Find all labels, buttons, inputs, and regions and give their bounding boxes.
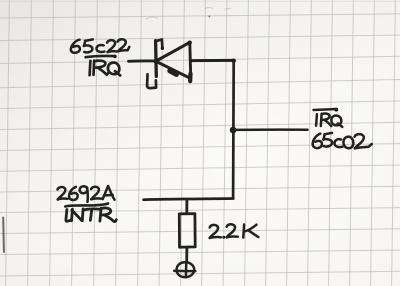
faint pencil smudges (paper artifacts) xyxy=(146,8,231,19)
net label IRQ overline (65c02 side) xyxy=(314,108,339,112)
net label IRQ text (65c22 side) xyxy=(90,61,121,76)
wire vertical bus from Q1 down to INTR net xyxy=(232,61,235,199)
wire INTR net down to resistor R1 xyxy=(185,199,188,214)
junction node at IRQ tap xyxy=(230,127,237,134)
wire Q1 output to right corner xyxy=(191,59,236,63)
net label INTR text xyxy=(66,208,116,222)
wire resistor R1 to supply xyxy=(185,247,188,262)
wire from 65c22 IRQ pin to Q1 base xyxy=(129,59,156,62)
transistor Q1 (open-collector driver symbol) xyxy=(147,40,192,89)
label 2692A xyxy=(58,186,115,202)
label 65c02 xyxy=(313,133,372,148)
wire junction to IRQ 65c02 label xyxy=(233,128,308,131)
power supply + terminal xyxy=(174,262,195,277)
wire INTR net to vertical bus xyxy=(144,199,234,200)
resistor R1 body xyxy=(179,214,195,248)
label 65c22 xyxy=(71,39,129,53)
stray ink speck near top xyxy=(208,15,210,17)
label 2.2 K xyxy=(210,224,259,238)
paper edge shadow bottom-left xyxy=(2,218,5,253)
net label INTR overline xyxy=(65,204,108,207)
net label IRQ overline (65c22 side) xyxy=(86,55,117,59)
net label IRQ text (65c02 side) xyxy=(316,114,342,127)
